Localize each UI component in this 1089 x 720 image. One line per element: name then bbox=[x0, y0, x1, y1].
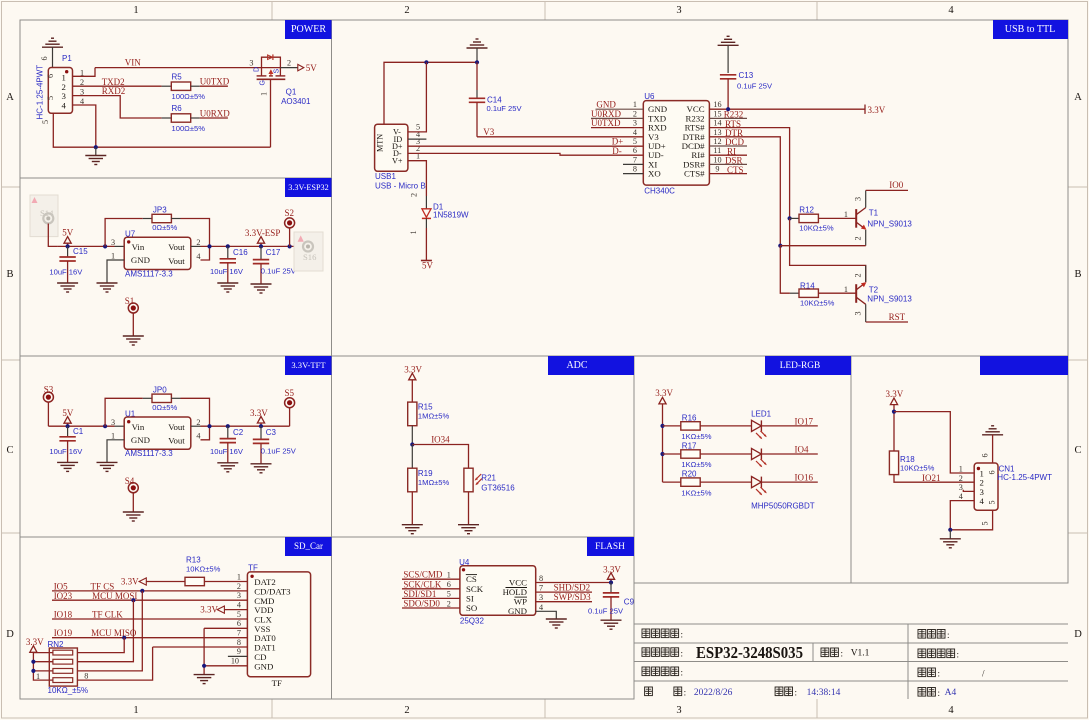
junction (MCU_MOSI) bbox=[131, 598, 135, 602]
wire CTS stub bbox=[709, 173, 747, 175]
svg-text:10uF 16V: 10uF 16V bbox=[49, 267, 83, 276]
svg-text:5: 5 bbox=[237, 610, 241, 619]
section title bars bbox=[285, 20, 1068, 556]
capacitor C3 bbox=[253, 426, 297, 464]
junction bbox=[424, 60, 428, 64]
wire R21 to gnd bbox=[468, 492, 470, 525]
junction bbox=[259, 424, 263, 428]
wire IO0 bbox=[866, 189, 908, 191]
svg-text:AMS1117-3.3: AMS1117-3.3 bbox=[125, 449, 173, 458]
svg-text:U0RXD: U0RXD bbox=[200, 108, 231, 118]
svg-text:R21: R21 bbox=[481, 473, 496, 482]
svg-text:4: 4 bbox=[959, 492, 963, 501]
resistor R18 bbox=[889, 451, 934, 475]
ground (C16) bbox=[217, 283, 238, 292]
svg-text:JP0: JP0 bbox=[153, 385, 167, 394]
wire USB pin1 to D1 bbox=[408, 161, 427, 196]
svg-text:3: 3 bbox=[237, 591, 241, 600]
svg-text:TF: TF bbox=[248, 563, 258, 572]
svg-text:U0TXD: U0TXD bbox=[200, 77, 230, 87]
IC U4 25Q32 bbox=[447, 558, 543, 625]
wire GND pin4 bbox=[536, 611, 557, 619]
ground (U1) bbox=[97, 462, 118, 471]
LED (blue element) bbox=[752, 477, 767, 496]
svg-text:5V: 5V bbox=[422, 261, 434, 271]
resistor R20 bbox=[663, 470, 752, 498]
junction bbox=[207, 244, 211, 248]
power flag 5V bbox=[62, 408, 74, 426]
svg-text:TF: TF bbox=[272, 678, 282, 688]
junction bbox=[94, 145, 98, 149]
svg-text:1: 1 bbox=[959, 465, 963, 474]
wire GND row bbox=[204, 665, 247, 667]
wire RN2 row3 left bbox=[33, 670, 52, 672]
svg-text:11: 11 bbox=[713, 146, 721, 155]
power flag 3.3V bbox=[865, 105, 886, 115]
svg-text:6: 6 bbox=[633, 146, 637, 155]
wire R18 to IO21 bbox=[894, 475, 974, 483]
svg-text:G: G bbox=[259, 80, 266, 85]
ground (U4) bbox=[546, 619, 567, 628]
svg-text:0.1uF 25V: 0.1uF 25V bbox=[487, 104, 523, 113]
wire DTR to R14 bbox=[780, 246, 790, 294]
wire U7 pin1 to gnd bbox=[107, 260, 124, 283]
wire RTS bbox=[709, 128, 789, 219]
wire RN2 row1 right to MISO bbox=[77, 638, 124, 653]
power flag 3.3V bbox=[603, 564, 621, 582]
ground (C15) bbox=[57, 283, 78, 292]
wire RI stub bbox=[709, 154, 747, 156]
svg-text:GND: GND bbox=[254, 661, 273, 671]
svg-text:V3: V3 bbox=[483, 127, 494, 137]
svg-text:SDO/SD0: SDO/SD0 bbox=[403, 599, 440, 609]
svg-text:R19: R19 bbox=[418, 469, 433, 478]
wire RN2 row2 right to MOSI bbox=[77, 600, 133, 662]
label 日期: 2022/8/26 bbox=[645, 687, 733, 698]
svg-text:4: 4 bbox=[633, 128, 637, 137]
wire R15 to junction bbox=[411, 426, 413, 445]
svg-text:SCK/CLK: SCK/CLK bbox=[403, 579, 442, 589]
svg-text:2: 2 bbox=[853, 273, 862, 277]
svg-text:SO: SO bbox=[466, 603, 477, 613]
5V rail wire bbox=[58, 245, 115, 247]
svg-text:1: 1 bbox=[447, 571, 451, 580]
pad S2 bbox=[285, 208, 295, 246]
wire CN1 pin4 to gnd bbox=[950, 501, 974, 530]
svg-text:JP3: JP3 bbox=[153, 206, 167, 215]
regulator U1 AMS1117-3.3 bbox=[111, 409, 200, 458]
wire R232 stub bbox=[709, 117, 747, 119]
wire SWP/SD3 bbox=[536, 601, 592, 603]
svg-text:V1.1: V1.1 bbox=[851, 649, 870, 659]
svg-text:MCU MISO: MCU MISO bbox=[91, 628, 137, 638]
IC U6 CH340C bbox=[633, 92, 722, 196]
svg-text:7: 7 bbox=[539, 584, 543, 593]
power flag 5V (bar) bbox=[421, 261, 434, 271]
svg-text:3.3V: 3.3V bbox=[404, 365, 422, 375]
resistor R5 bbox=[171, 72, 205, 101]
svg-text:4: 4 bbox=[539, 603, 543, 612]
wire XO stub bbox=[623, 173, 643, 175]
svg-text:IO19: IO19 bbox=[54, 628, 73, 638]
svg-text:C: C bbox=[1074, 445, 1081, 456]
svg-text::: : bbox=[938, 688, 941, 698]
svg-text:CH340C: CH340C bbox=[644, 186, 675, 195]
capacitor C13 bbox=[720, 71, 773, 109]
svg-text:1: 1 bbox=[111, 252, 115, 261]
svg-text:6: 6 bbox=[981, 453, 990, 457]
wire P1 pin4 down bbox=[73, 105, 96, 147]
svg-text:10KΩ±5%: 10KΩ±5% bbox=[186, 564, 221, 573]
svg-text:MTN: MTN bbox=[376, 134, 385, 152]
junction bbox=[259, 244, 263, 248]
ghost pad S14 bbox=[30, 195, 58, 237]
svg-text:3.3V-TFT: 3.3V-TFT bbox=[291, 360, 326, 370]
junction bbox=[660, 452, 664, 456]
wire TF_CS row bbox=[52, 590, 247, 592]
svg-text:7: 7 bbox=[237, 629, 241, 638]
svg-text:3.3V: 3.3V bbox=[655, 388, 673, 398]
svg-text:Vin: Vin bbox=[132, 422, 145, 432]
svg-text:IO34: IO34 bbox=[431, 434, 450, 444]
power flag 3.3V bbox=[250, 408, 268, 426]
svg-text:100Ω±5%: 100Ω±5% bbox=[172, 124, 206, 133]
svg-text:3: 3 bbox=[539, 593, 543, 602]
ground (S4) bbox=[123, 512, 144, 521]
svg-text:P1: P1 bbox=[62, 54, 72, 63]
ground (U7) bbox=[97, 283, 118, 292]
wire junction to R19 bbox=[411, 445, 413, 469]
power flag 5V bbox=[62, 228, 74, 247]
svg-text:IO16: IO16 bbox=[795, 473, 814, 483]
ground (top USB) bbox=[467, 39, 488, 62]
svg-text:3.3V: 3.3V bbox=[26, 637, 44, 647]
svg-text:SD_Car: SD_Car bbox=[294, 541, 323, 551]
svg-text:1: 1 bbox=[133, 5, 138, 16]
wire MCU_MOSI row bbox=[52, 599, 247, 601]
svg-text:MHP5050RGBDT: MHP5050RGBDT bbox=[751, 501, 815, 510]
svg-text:B: B bbox=[6, 269, 13, 280]
svg-text:Vout: Vout bbox=[168, 436, 185, 446]
svg-text::: : bbox=[938, 669, 941, 679]
ground (R19) bbox=[402, 525, 423, 534]
svg-text:IO18: IO18 bbox=[54, 610, 73, 620]
ground (above CN1 pin6) bbox=[981, 426, 1004, 463]
net V3 wire bbox=[477, 136, 643, 138]
connector CN1 bbox=[959, 463, 1052, 510]
svg-text:14:38:14: 14:38:14 bbox=[807, 688, 841, 698]
svg-text:1KΩ±5%: 1KΩ±5% bbox=[681, 432, 711, 441]
power flag 3.3V (VDD row) bbox=[200, 605, 247, 615]
svg-text:2: 2 bbox=[404, 5, 409, 16]
svg-text:9: 9 bbox=[715, 165, 719, 174]
svg-text:T2: T2 bbox=[869, 286, 879, 295]
pad S3 bbox=[43, 385, 53, 427]
wire IO17 bbox=[762, 425, 818, 427]
svg-text:CS: CS bbox=[466, 574, 477, 584]
junction bbox=[948, 528, 952, 532]
wire U0TXD stub bbox=[591, 127, 643, 129]
wire S14 to rail bbox=[48, 224, 58, 247]
svg-text:5: 5 bbox=[41, 120, 50, 124]
svg-text:3.3V: 3.3V bbox=[886, 389, 904, 399]
svg-text:10KΩ±5%: 10KΩ±5% bbox=[800, 299, 835, 308]
ground (CN1) bbox=[940, 530, 961, 548]
wire RXD2 bbox=[73, 96, 162, 118]
svg-text:NPN_S9013: NPN_S9013 bbox=[867, 219, 912, 228]
LED LED1 (red) bbox=[751, 409, 772, 439]
ground (TF) bbox=[194, 675, 215, 684]
power flag 3.3V (left arrow) bbox=[121, 577, 146, 587]
wire TXD2 bbox=[73, 85, 162, 87]
wire D- bbox=[408, 153, 643, 155]
svg-text:IO21: IO21 bbox=[922, 473, 941, 483]
photoresistor R21 GT36516 bbox=[464, 468, 515, 492]
wire SCK/CLK bbox=[402, 588, 460, 590]
svg-text:6: 6 bbox=[46, 74, 55, 78]
svg-text:C15: C15 bbox=[73, 247, 88, 256]
ground (C9) bbox=[601, 620, 622, 629]
svg-text:R15: R15 bbox=[418, 402, 433, 411]
svg-text:0Ω±5%: 0Ω±5% bbox=[152, 223, 177, 232]
ground (top of P1) bbox=[40, 38, 63, 67]
junction bbox=[475, 60, 479, 64]
svg-text:9: 9 bbox=[237, 647, 241, 656]
svg-text:1: 1 bbox=[844, 285, 848, 294]
svg-text:C13: C13 bbox=[739, 71, 754, 80]
ghost pad S16 bbox=[294, 232, 323, 271]
svg-text:S2: S2 bbox=[285, 208, 295, 218]
svg-text::: : bbox=[947, 630, 950, 640]
svg-text:1MΩ±5%: 1MΩ±5% bbox=[418, 478, 450, 487]
svg-text:3: 3 bbox=[676, 705, 681, 716]
label 产品名称: bbox=[642, 629, 683, 640]
wire U1 pin1 to gnd bbox=[107, 440, 124, 463]
svg-text:C3: C3 bbox=[266, 428, 277, 437]
svg-text:2: 2 bbox=[404, 705, 409, 716]
resistor R17 bbox=[663, 442, 752, 470]
svg-text::: : bbox=[957, 650, 960, 660]
resistor JP0 bbox=[105, 385, 209, 440]
wire SCS/CMD bbox=[402, 578, 460, 580]
svg-text:14: 14 bbox=[713, 119, 721, 128]
svg-text::: : bbox=[684, 688, 687, 698]
svg-text:2: 2 bbox=[196, 418, 200, 427]
wire GND stub bbox=[596, 108, 644, 110]
resistor JP3 bbox=[105, 206, 209, 261]
wire RN2 row4 right to DAT1 bbox=[77, 647, 152, 680]
label 页码: / bbox=[918, 668, 985, 679]
svg-text:HC-1.25-4PWT: HC-1.25-4PWT bbox=[997, 473, 1052, 482]
ground (bottom rail) bbox=[85, 147, 106, 164]
resistor R12 bbox=[790, 205, 856, 232]
svg-text:ESP32-3248S035: ESP32-3248S035 bbox=[696, 643, 803, 662]
capacitor C14 bbox=[469, 62, 523, 137]
wire Q1 S to 5V bbox=[280, 67, 297, 69]
svg-text:1: 1 bbox=[633, 100, 637, 109]
svg-text:S16: S16 bbox=[303, 252, 317, 262]
svg-text:8: 8 bbox=[237, 638, 241, 647]
wire SHD/SD2 bbox=[536, 591, 592, 593]
regulator U7 AMS1117-3.3 bbox=[111, 230, 200, 279]
svg-text:T1: T1 bbox=[869, 209, 879, 218]
connector USB1 Micro B bbox=[375, 123, 426, 191]
wire TF_CLK row bbox=[52, 618, 247, 620]
svg-text:Vout: Vout bbox=[168, 422, 185, 432]
svg-text:8: 8 bbox=[539, 574, 543, 583]
capacitor C2 bbox=[210, 426, 244, 463]
svg-text:10: 10 bbox=[231, 657, 239, 666]
svg-text:12: 12 bbox=[713, 137, 721, 146]
svg-text:AO3401: AO3401 bbox=[281, 97, 311, 106]
wire DCD stub bbox=[709, 145, 747, 147]
wire T1 emitter rail bbox=[780, 245, 865, 247]
svg-text:VIN: VIN bbox=[125, 57, 141, 67]
svg-text:3.3V: 3.3V bbox=[868, 105, 886, 115]
label 版本: V1.1 bbox=[821, 648, 870, 659]
transistor T1 NPN_S9013 bbox=[853, 190, 912, 245]
capacitor C1 bbox=[49, 426, 83, 462]
junction (DTR/T1 emitter) bbox=[778, 244, 782, 248]
junction bbox=[660, 424, 664, 428]
junction bbox=[207, 424, 211, 428]
svg-text:RXD2: RXD2 bbox=[102, 86, 126, 96]
svg-text:A4: A4 bbox=[945, 688, 957, 698]
svg-text:SWP/SD3: SWP/SD3 bbox=[554, 592, 592, 602]
svg-text:USB1: USB1 bbox=[375, 172, 396, 181]
svg-text:SHD/SD2: SHD/SD2 bbox=[554, 583, 591, 593]
wire P1 pin5 bottom rail bbox=[53, 113, 270, 147]
svg-text:U6: U6 bbox=[644, 92, 655, 101]
net flag 5V bbox=[298, 63, 318, 73]
svg-text:16: 16 bbox=[713, 100, 721, 109]
svg-text:2: 2 bbox=[287, 59, 291, 68]
svg-text:TF CLK: TF CLK bbox=[92, 610, 123, 620]
ground (C2) bbox=[217, 463, 238, 472]
wire RN2 row1 left bbox=[33, 652, 52, 654]
svg-text:NPN_S9013: NPN_S9013 bbox=[867, 294, 912, 303]
junction bbox=[103, 244, 107, 248]
junction bbox=[103, 424, 107, 428]
svg-text:6: 6 bbox=[237, 619, 241, 628]
label 文件名: bbox=[918, 630, 950, 641]
wire VCC to 3.3V bbox=[536, 582, 611, 584]
svg-text:D: D bbox=[253, 67, 260, 72]
ground (S1) bbox=[123, 336, 144, 345]
junction bbox=[66, 244, 70, 248]
svg-text:XO: XO bbox=[648, 169, 661, 179]
svg-text:VCC: VCC bbox=[509, 577, 527, 587]
5V rail wire bbox=[48, 425, 114, 427]
label 产品型号: bbox=[642, 648, 683, 659]
wire R5 to U0TXD bbox=[191, 85, 200, 87]
svg-text:2022/8/26: 2022/8/26 bbox=[694, 688, 733, 698]
junction bbox=[609, 580, 613, 584]
svg-text:4: 4 bbox=[196, 432, 200, 441]
svg-text:0Ω±5%: 0Ω±5% bbox=[152, 403, 177, 412]
svg-text:100Ω±5%: 100Ω±5% bbox=[172, 92, 206, 101]
svg-text:3.3V-ESP: 3.3V-ESP bbox=[245, 228, 280, 238]
LED (green element) bbox=[752, 448, 767, 467]
junction (TF_CS) bbox=[140, 589, 144, 593]
wire XI stub bbox=[623, 163, 643, 165]
junction bbox=[202, 664, 206, 668]
wire SDI/SD1 bbox=[402, 597, 460, 599]
svg-text:4: 4 bbox=[980, 496, 985, 506]
svg-text:0.1uF 25V: 0.1uF 25V bbox=[737, 82, 773, 91]
wire R6 to U0RXD bbox=[191, 117, 200, 119]
power flag 3.3V bbox=[404, 365, 422, 403]
wire IO34 bbox=[412, 445, 468, 469]
svg-text:10KΩ±5%: 10KΩ±5% bbox=[799, 224, 834, 233]
svg-text:1KΩ±5%: 1KΩ±5% bbox=[681, 460, 711, 469]
svg-text:C9: C9 bbox=[624, 598, 635, 607]
svg-text:5: 5 bbox=[633, 137, 637, 146]
svg-text:10uF 16V: 10uF 16V bbox=[210, 447, 244, 456]
wire D+ bbox=[408, 145, 643, 147]
svg-text:5: 5 bbox=[46, 96, 55, 100]
wire top rail bbox=[384, 62, 477, 124]
wire CN1 pin5 to gnd bbox=[950, 510, 992, 530]
label 时间: 14:38:14 bbox=[775, 687, 841, 698]
svg-text:3.3V: 3.3V bbox=[200, 605, 218, 615]
svg-text:LED-RGB: LED-RGB bbox=[780, 361, 821, 371]
ground (C17) bbox=[251, 284, 272, 293]
label 文件编号: bbox=[918, 649, 959, 660]
svg-text:5: 5 bbox=[447, 590, 451, 599]
svg-text:SDI/SD1: SDI/SD1 bbox=[403, 589, 436, 599]
svg-text:2: 2 bbox=[633, 109, 637, 118]
svg-text:3: 3 bbox=[111, 418, 115, 427]
wire RTS to T2 emitter bbox=[790, 218, 866, 282]
label 纸张: A4 bbox=[918, 688, 956, 699]
svg-text:GND: GND bbox=[131, 435, 150, 445]
svg-text:GND: GND bbox=[131, 255, 150, 265]
svg-text:LED1: LED1 bbox=[751, 409, 772, 418]
svg-text:6: 6 bbox=[447, 580, 451, 589]
wire IO16 bbox=[762, 481, 818, 483]
svg-text:WP: WP bbox=[514, 597, 527, 607]
wire pin1 to VIN bbox=[73, 68, 96, 77]
svg-text:10KΩ±5%: 10KΩ±5% bbox=[900, 464, 935, 473]
svg-text:HC-1.25-4PWT: HC-1.25-4PWT bbox=[36, 65, 45, 120]
svg-text:FLASH: FLASH bbox=[595, 542, 625, 552]
svg-text:HOLD: HOLD bbox=[503, 587, 527, 597]
svg-text:13: 13 bbox=[713, 128, 721, 137]
svg-text:C1: C1 bbox=[73, 427, 84, 436]
svg-text:R13: R13 bbox=[186, 556, 201, 565]
power flag 3.3V-ESP bbox=[245, 228, 280, 246]
transistor Q1 AO3401 bbox=[249, 54, 311, 106]
svg-text:IO0: IO0 bbox=[889, 180, 903, 190]
svg-text:GT36516: GT36516 bbox=[481, 483, 515, 492]
svg-text:C16: C16 bbox=[233, 248, 248, 257]
svg-text:C17: C17 bbox=[266, 248, 281, 257]
svg-text:IO4: IO4 bbox=[795, 445, 809, 455]
junction bbox=[726, 107, 730, 111]
svg-text:1: 1 bbox=[36, 672, 40, 681]
junction bbox=[226, 244, 230, 248]
label 产品编号: bbox=[642, 667, 683, 678]
wire Q1 gate down bbox=[270, 79, 272, 147]
svg-text:GND: GND bbox=[508, 606, 527, 616]
junction bbox=[226, 424, 230, 428]
resistor R13 bbox=[146, 556, 247, 586]
diode D1 1N5819W bbox=[409, 193, 469, 235]
wire U7 pin2 rail bbox=[191, 245, 201, 247]
svg-text:C: C bbox=[6, 445, 13, 456]
svg-text:3: 3 bbox=[249, 59, 253, 68]
